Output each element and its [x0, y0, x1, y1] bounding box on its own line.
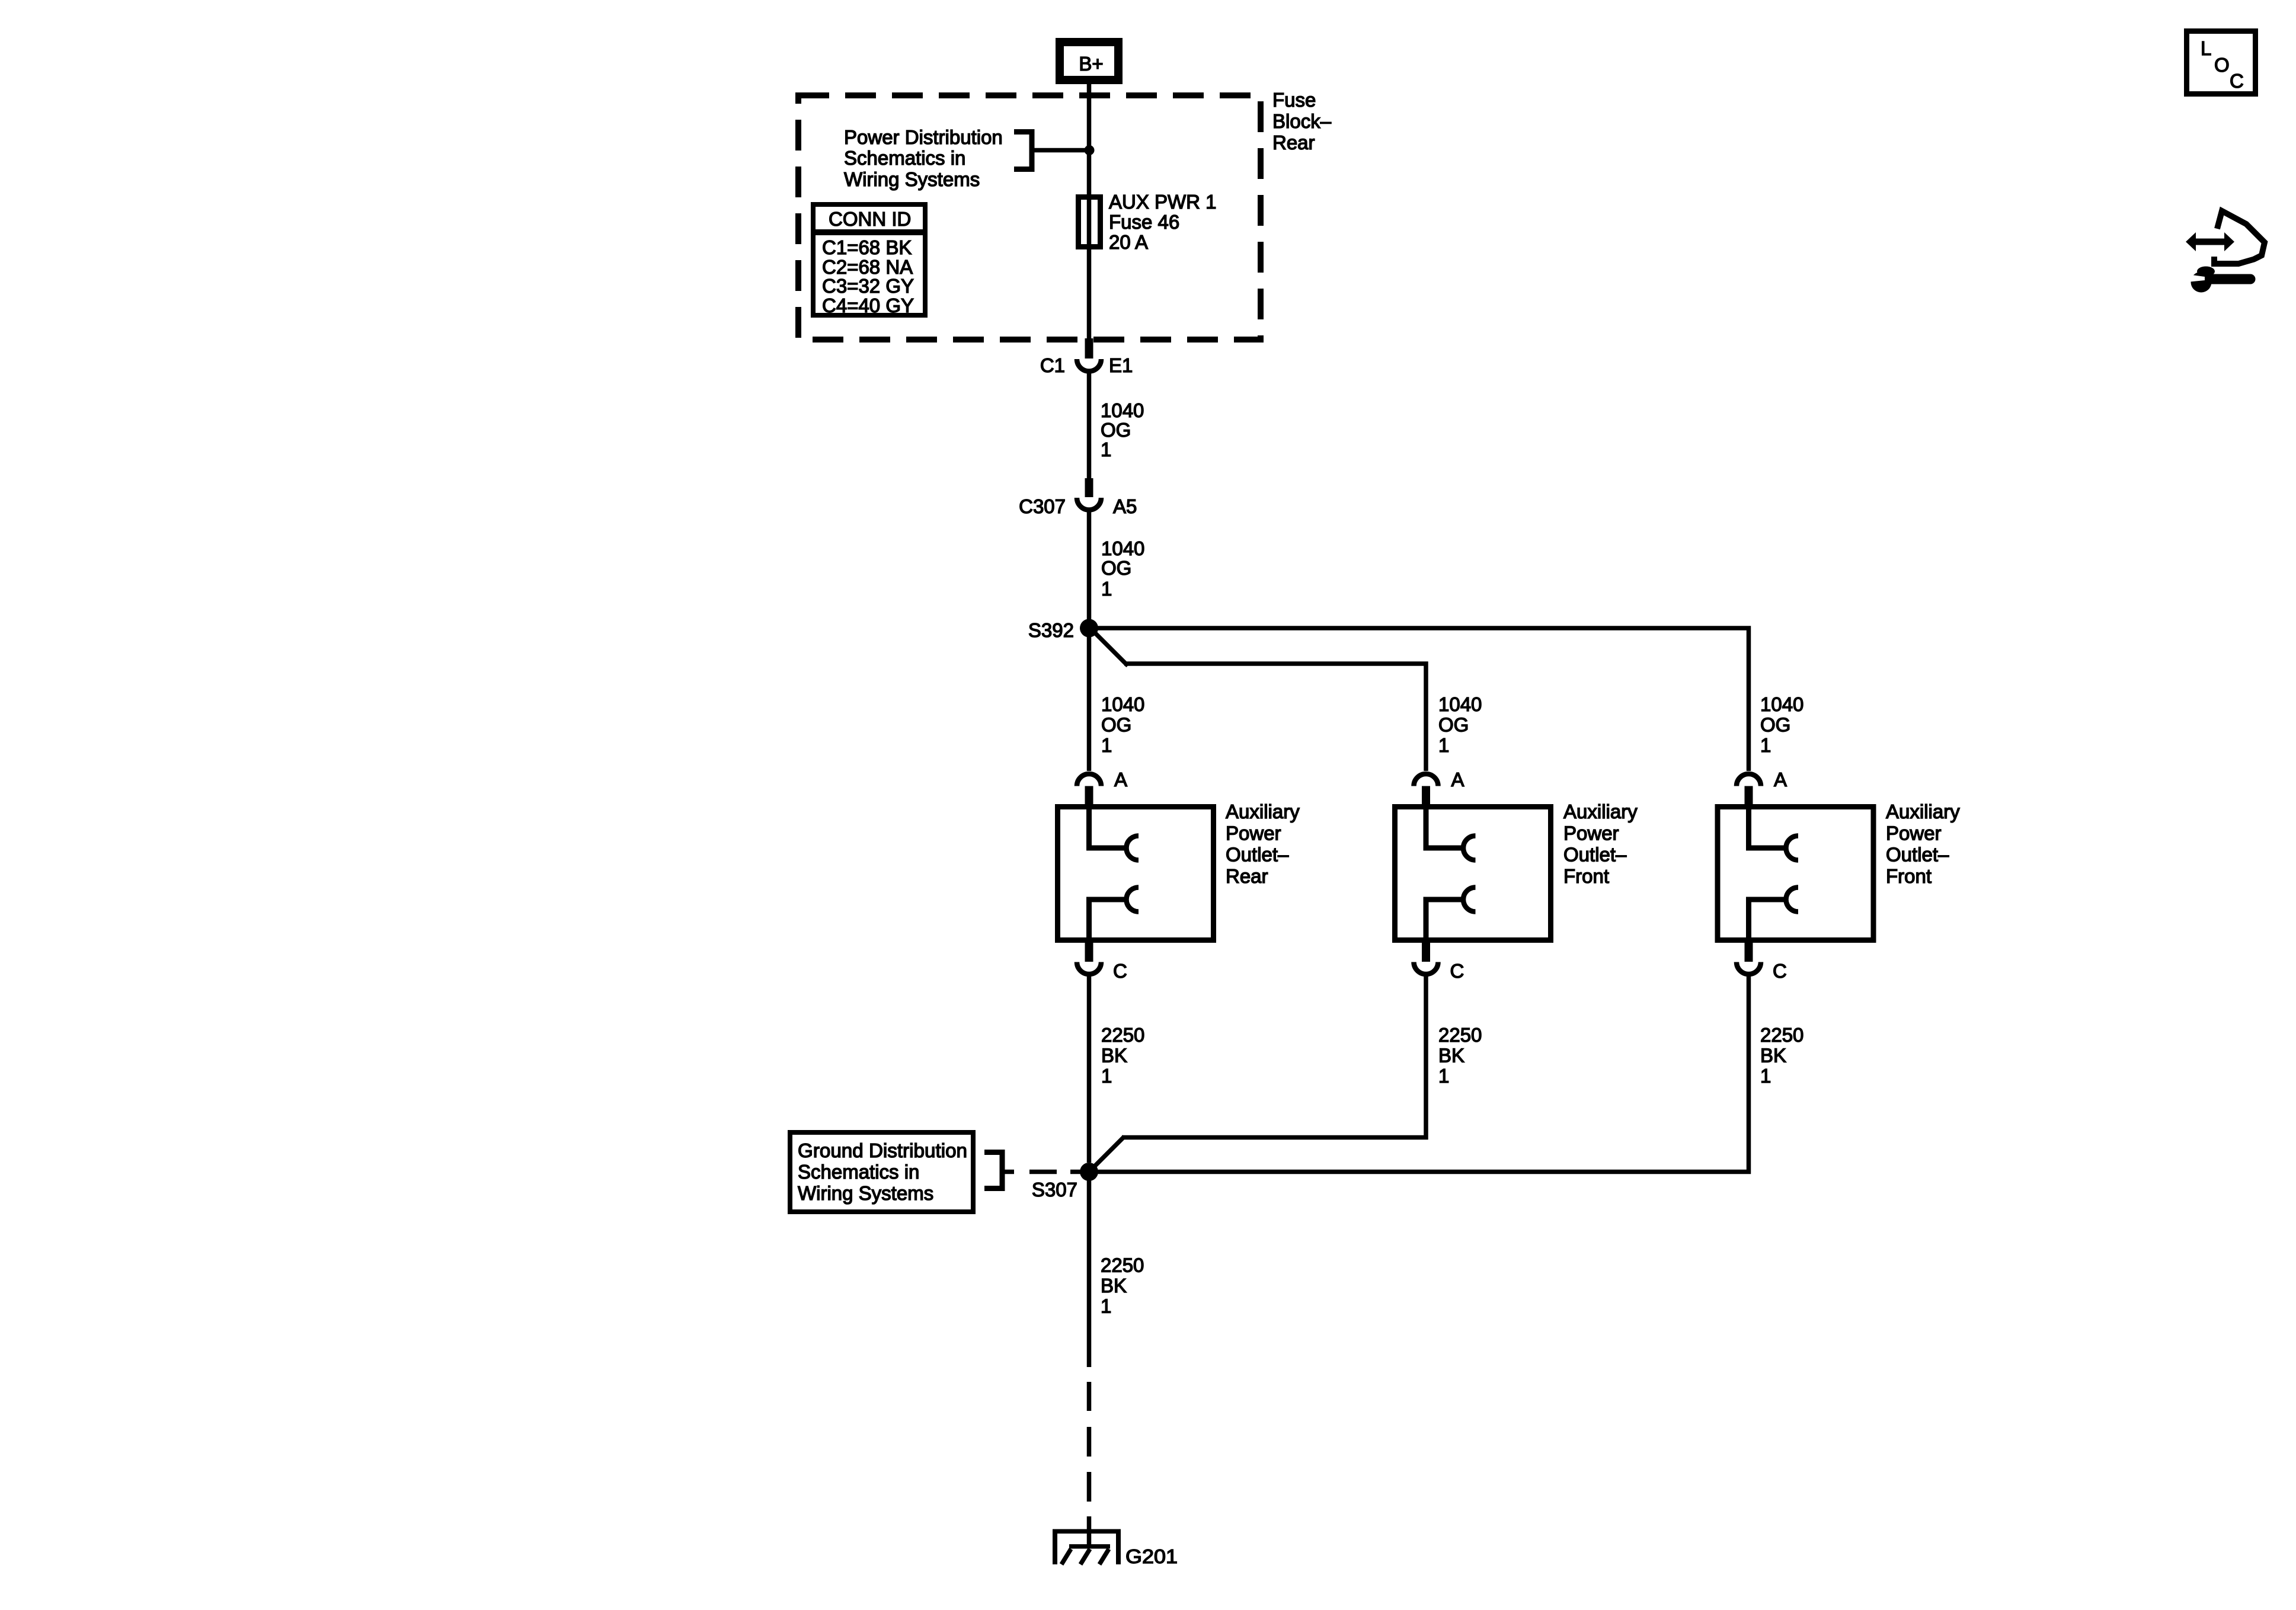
splice S307 [1080, 1163, 1098, 1181]
svg-text:L: L [2201, 37, 2211, 59]
svg-text:2250: 2250 [1101, 1254, 1144, 1276]
wire label 2250 BK 1 (front 2) [1760, 1024, 1803, 1087]
connector C1 pin E1 [1077, 338, 1101, 372]
label Auxiliary Power Outlet - Front 1 [1563, 801, 1638, 887]
svg-text:OG: OG [1101, 714, 1131, 736]
svg-text:1040: 1040 [1760, 693, 1803, 715]
svg-text:Power: Power [1886, 822, 1942, 844]
ground G201 [1053, 1529, 1121, 1565]
svg-text:C3=32 GY: C3=32 GY [822, 275, 914, 297]
svg-text:C1: C1 [1040, 354, 1065, 376]
svg-text:Outlet–: Outlet– [1563, 844, 1627, 866]
wire S307 down [1087, 1180, 1092, 1367]
svg-text:Auxiliary: Auxiliary [1226, 801, 1300, 822]
wire S392 to outlet front 2 (top branch) [1089, 626, 1749, 771]
svg-text:20 A: 20 A [1109, 231, 1148, 253]
splice S392 [1080, 619, 1098, 638]
svg-text:Power: Power [1226, 822, 1281, 844]
svg-text:Block–: Block– [1272, 110, 1332, 132]
connector pin A (outlet front 2) [1737, 774, 1761, 807]
label Auxiliary Power Outlet - Front 2 [1886, 801, 1960, 887]
svg-text:B+: B+ [1079, 53, 1103, 75]
component Auxiliary Power Outlet - Rear [1058, 807, 1214, 940]
dashed wire to ground G201 [1087, 1382, 1092, 1545]
svg-text:Schematics in: Schematics in [798, 1161, 919, 1183]
wire bracket to junction node [1032, 148, 1089, 153]
node junction on B+ wire [1085, 145, 1095, 155]
svg-text:Power Distribution: Power Distribution [844, 126, 1003, 148]
svg-text:OG: OG [1101, 419, 1131, 441]
svg-text:Wiring Systems: Wiring Systems [798, 1182, 933, 1204]
svg-text:S307: S307 [1032, 1179, 1077, 1201]
component Auxiliary Power Outlet - Front 1 [1395, 807, 1551, 940]
svg-text:1: 1 [1101, 1065, 1112, 1087]
connector pin C (outlet front 1) [1414, 943, 1438, 974]
svg-text:C: C [2230, 70, 2244, 92]
svg-text:2250: 2250 [1438, 1024, 1482, 1046]
svg-text:Fuse 46: Fuse 46 [1109, 211, 1179, 233]
svg-text:BK: BK [1101, 1275, 1127, 1297]
svg-text:2250: 2250 [1760, 1024, 1803, 1046]
icon LOC locator box [2187, 31, 2256, 94]
svg-text:Power: Power [1563, 822, 1619, 844]
wire label 2250 BK 1 (front 1) [1438, 1024, 1482, 1087]
wire C307 to S392 [1087, 512, 1092, 620]
svg-text:BK: BK [1438, 1045, 1464, 1067]
svg-text:G201: G201 [1125, 1545, 1178, 1567]
wire B+ down to connector C1 [1087, 84, 1092, 338]
wire label 1040 OG 1 [1101, 537, 1144, 600]
svg-text:Outlet–: Outlet– [1226, 844, 1289, 866]
svg-text:Auxiliary: Auxiliary [1886, 801, 1960, 822]
wire label 1040 OG 1 [1101, 399, 1144, 460]
svg-text:E1: E1 [1109, 354, 1133, 376]
bracket for power distribution note [1014, 132, 1032, 169]
svg-text:Wiring Systems: Wiring Systems [844, 168, 980, 190]
svg-text:1: 1 [1101, 734, 1112, 756]
svg-text:A: A [1451, 769, 1464, 790]
svg-text:BK: BK [1760, 1045, 1786, 1067]
svg-text:1040: 1040 [1101, 399, 1144, 421]
svg-text:1: 1 [1438, 734, 1449, 756]
svg-text:1: 1 [1101, 1295, 1111, 1317]
svg-text:1: 1 [1101, 578, 1112, 600]
connector C307 pin A5 [1077, 478, 1101, 510]
wire C1 to C307 [1087, 373, 1092, 478]
icon service information (double arrow, panel outline, wrench) [2186, 211, 2265, 293]
svg-text:Schematics in: Schematics in [844, 147, 965, 169]
bracket for ground distribution note [984, 1153, 1002, 1189]
svg-text:S392: S392 [1028, 619, 1074, 641]
svg-text:OG: OG [1101, 557, 1131, 579]
svg-text:C307: C307 [1019, 495, 1066, 517]
component Auxiliary Power Outlet - Front 2 [1718, 807, 1873, 940]
fuse block dashed box (Fuse Block - Rear) [798, 95, 1261, 340]
svg-text:Rear: Rear [1226, 865, 1268, 887]
double arrow [2194, 239, 2226, 245]
svg-text:BK: BK [1101, 1045, 1127, 1067]
svg-text:Rear: Rear [1272, 132, 1315, 153]
wire outlet front 2 C to S307 [1098, 977, 1751, 1172]
wire S392 to outlet front 1 (diagonal branch) [1094, 632, 1426, 772]
svg-text:1040: 1040 [1438, 693, 1482, 715]
svg-text:AUX PWR 1: AUX PWR 1 [1109, 191, 1217, 213]
wire label 1040 OG 1 (branch front 2) [1760, 693, 1803, 756]
svg-text:C: C [1773, 960, 1787, 982]
svg-text:Front: Front [1886, 865, 1932, 887]
svg-text:2250: 2250 [1101, 1024, 1144, 1046]
svg-text:C: C [1113, 960, 1127, 982]
svg-text:A: A [1114, 769, 1127, 790]
svg-text:1: 1 [1101, 438, 1111, 460]
panel outline [2211, 211, 2265, 264]
connector pin A (outlet front 1) [1414, 774, 1438, 807]
svg-text:OG: OG [1760, 714, 1790, 736]
connector pin C (outlet rear) [1077, 943, 1101, 974]
wire outlet front 1 C to S307 (with diagonal) [1091, 977, 1428, 1170]
svg-text:1: 1 [1760, 1065, 1771, 1087]
dashed wire bracket to S307 [1002, 1170, 1098, 1174]
svg-text:1: 1 [1438, 1065, 1449, 1087]
connector pin A (outlet rear) [1077, 774, 1101, 807]
svg-text:1040: 1040 [1101, 693, 1144, 715]
svg-text:1040: 1040 [1101, 537, 1144, 559]
wire S392 to outlet rear (main) [1087, 636, 1092, 771]
svg-text:O: O [2214, 54, 2230, 76]
svg-text:A5: A5 [1113, 495, 1137, 517]
label Auxiliary Power Outlet - Rear [1226, 801, 1300, 887]
wrench [2191, 272, 2212, 293]
svg-text:Auxiliary: Auxiliary [1563, 801, 1638, 822]
connector pin C (outlet front 2) [1737, 943, 1761, 974]
power symbol B+ [1060, 42, 1118, 80]
svg-text:A: A [1774, 769, 1787, 790]
wire label 1040 OG 1 (branch front 1) [1438, 693, 1482, 756]
fuse AUX PWR 1 / Fuse 46 / 20 A [1079, 197, 1101, 247]
svg-text:CONN ID: CONN ID [829, 208, 911, 230]
wire outlet rear C to S307 [1087, 977, 1092, 1163]
label Fuse Block-Rear [1272, 89, 1332, 153]
wire label 2250 BK 1 (ground) [1101, 1254, 1144, 1317]
label AUX PWR 1 Fuse 46 20 A [1109, 191, 1217, 253]
svg-text:C4=40 GY: C4=40 GY [822, 295, 914, 316]
svg-text:C1=68 BK: C1=68 BK [822, 236, 912, 258]
note: Ground Distribution Schematics in Wiring Systems [790, 1132, 973, 1212]
svg-text:C: C [1450, 960, 1464, 982]
wire label 1040 OG 1 (main) [1101, 693, 1144, 756]
svg-text:Fuse: Fuse [1272, 89, 1316, 111]
connector id table CONN ID [811, 204, 928, 316]
svg-text:1: 1 [1760, 734, 1771, 756]
note: Power Distribution Schematics in Wiring Systems [844, 126, 1003, 190]
svg-text:Outlet–: Outlet– [1886, 844, 1949, 866]
svg-text:OG: OG [1438, 714, 1469, 736]
svg-text:Ground Distribution: Ground Distribution [798, 1140, 967, 1161]
wire label 2250 BK 1 (rear) [1101, 1024, 1144, 1087]
svg-text:Front: Front [1563, 865, 1609, 887]
